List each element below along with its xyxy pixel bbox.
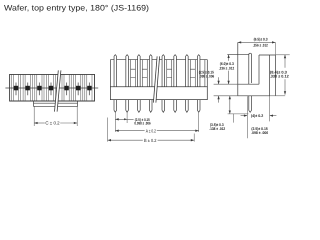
dimension A: text [146, 128, 157, 133]
dimension 2.5 base: mm text [199, 70, 214, 74]
front view: contact pin 1 (square section) [14, 86, 18, 91]
section view: solder leg [249, 96, 252, 113]
dimension pitch: inch text [134, 122, 150, 126]
dimension (6.5)+/-0.3 width: line, arrows, extension [238, 41, 276, 43]
section view: left wall top edge (extended left for dim 6.0) [227, 54, 248, 56]
dimension 6.5 width: mm text [254, 38, 268, 42]
dimension (2.5)+/-0.15 base thickness: outside arrows [218, 77, 220, 84]
section view: base bottom / PCB line [238, 95, 270, 97]
dimension 6.5 width: inch text [253, 44, 268, 48]
section view: slot floor (extended left for dims) [238, 83, 259, 85]
dimension B: text [144, 138, 157, 143]
front view: contact pin stems [16, 83, 89, 96]
front view: break line (left) [55, 70, 59, 111]
front view: contact pin 3 (square section) [37, 86, 41, 91]
dimension (8.4)+/-0.3 overall height: vertical with arrows [284, 55, 286, 68]
svg-text:.098 ± .006: .098 ± .006 [251, 131, 268, 135]
svg-text:0.098 ± .006: 0.098 ± .006 [134, 122, 150, 126]
side view: end walls [109, 60, 111, 87]
front view: break line (right) [57, 70, 61, 111]
dimension pitch: mm text [135, 118, 150, 122]
section view: right wall top extension (to dim 8.4) [275, 54, 289, 56]
side view: break gap whiteout [155, 56, 159, 102]
svg-text:.256 ± .012: .256 ± .012 [253, 44, 268, 48]
section view: leg tip extension line [228, 113, 249, 115]
section view: right wall [258, 55, 260, 84]
dimension 3.5: mm text [210, 123, 224, 127]
dimension 6.0: inch text [219, 66, 234, 70]
dimension A +/-0.2: dimension line [115, 130, 144, 132]
side view: pins (upper posts with pointed tips) [114, 55, 200, 87]
svg-text:.138 ± .012: .138 ± .012 [209, 127, 225, 131]
dimension 8.4: inch text [270, 75, 289, 79]
side view: partition wall ladders between alternate pin bays [131, 60, 196, 87]
dimension B: extension lines [107, 118, 109, 142]
side view: solder legs [114, 100, 200, 113]
front view: horizontal pin centerline [5, 87, 98, 89]
side view: housing top edge line [110, 59, 207, 61]
dimension A: extension line right [198, 113, 200, 132]
dimension 3.5: inch text [209, 127, 225, 131]
front view: contact pin 5 (square section) [64, 86, 68, 91]
dimension C: extension lines [33, 107, 35, 127]
svg-text:Wafer, top entry type, 180° (J: Wafer, top entry type, 180° (JS-1169) [4, 4, 149, 13]
dimension (4)+/-0.2: arrows and text [241, 115, 248, 117]
dimension (4)+/-0.2: extension lines [246, 96, 248, 138]
side view: break line (left) [153, 56, 157, 102]
side view: break line (right) [156, 56, 160, 102]
dimension (6.0)+/-0.3 wall height: vertical line with arrows [228, 55, 230, 61]
svg-text:B ± 0.2: B ± 0.2 [144, 138, 157, 143]
svg-text:(6.5)± 0.3: (6.5)± 0.3 [254, 38, 268, 42]
dimension C +/-0.2: dimension line with arrows [34, 122, 45, 124]
svg-text:(4)± 0.2: (4)± 0.2 [251, 114, 263, 118]
dimension 8.4: mm text [270, 70, 287, 74]
svg-text:.098 ± .006: .098 ± .006 [199, 75, 214, 79]
front view: contact pin 7 (square section) [87, 86, 91, 91]
front view: wafer body outline [10, 74, 95, 101]
dimension (3.5)+/-0.3 leg below board: vertical with arrows [229, 96, 231, 114]
dimension 4: text [251, 114, 263, 118]
svg-text:C ± 0.2: C ± 0.2 [45, 121, 60, 126]
side view: body band [110, 87, 207, 100]
dimension 2.5 base: inch text [199, 75, 214, 79]
front view: cavity partition walls [11, 74, 92, 101]
dimension B +/-0.2: dimension line [108, 139, 143, 141]
svg-text:.330 ± 0.12: .330 ± 0.12 [270, 75, 289, 79]
front view: break gap whiteout [56, 70, 60, 111]
section view: left wall outer line (with extension to top dim) [237, 42, 239, 95]
front view: contact pin 4 (square section) [49, 86, 53, 91]
dimension 6.0: mm text [220, 62, 234, 66]
svg-text:A ± 0.2: A ± 0.2 [146, 128, 157, 133]
dimension (2.5)+/-0.15 lower right: texts [251, 127, 267, 131]
front view: contact pin 6 (square section) [76, 86, 80, 91]
section view: center pin [249, 53, 252, 84]
dimension pitch 2.5: extension lines from leg tips [114, 113, 116, 132]
svg-text:.236 ± .012: .236 ± .012 [219, 66, 234, 70]
front view: bottom mounting rib [34, 101, 78, 106]
dimension pitch (2.5)+/-0.15: line and arrows [115, 118, 133, 120]
front view: contact pin 2 (square section) [26, 86, 30, 91]
dimension C +/-0.2: text [45, 121, 60, 126]
